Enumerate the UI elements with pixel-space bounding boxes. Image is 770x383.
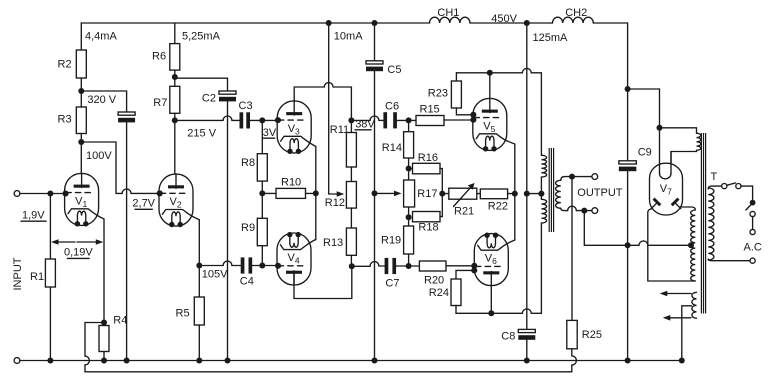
resistor R6 bbox=[174, 23, 176, 44]
resistor R7 bbox=[170, 86, 180, 113]
node 100V bbox=[78, 139, 84, 145]
measure arrow 0,19V bbox=[57, 241, 75, 243]
resistor R20 bbox=[419, 261, 446, 271]
V4 plate wire to R13/C7 node bbox=[294, 266, 352, 298]
svg-text:R8: R8 bbox=[241, 157, 255, 169]
resistor R3 bbox=[76, 107, 86, 134]
svg-text:C4: C4 bbox=[240, 275, 254, 287]
resistor R8 bbox=[261, 120, 263, 153]
feedback resistor R25 bbox=[571, 177, 573, 321]
wire 38V node to C6 with hop over C5 line bbox=[351, 119, 370, 121]
svg-text:CH1: CH1 bbox=[437, 7, 459, 19]
resistor R18 bbox=[413, 212, 441, 222]
top B+ rail bbox=[81, 22, 429, 24]
svg-text:C5: C5 bbox=[387, 64, 401, 76]
heater winding with arrows bbox=[692, 292, 697, 318]
balance feed line from B+ rail to R12 bbox=[326, 20, 332, 26]
wire R16/R18 right link bbox=[440, 169, 442, 217]
triode V1 bbox=[65, 173, 104, 226]
pentode V5 bbox=[473, 98, 515, 151]
secondary bottom lead to terminal bbox=[561, 208, 568, 210]
choke CH2 bbox=[553, 17, 594, 23]
node R8/R9/R10 bbox=[259, 190, 265, 196]
svg-text:R2: R2 bbox=[58, 59, 72, 71]
svg-text:1,9V: 1,9V bbox=[22, 210, 45, 222]
svg-text:C2: C2 bbox=[202, 92, 216, 104]
potentiometer R21 bbox=[442, 193, 449, 195]
wire C3 to V3 grid bbox=[250, 119, 278, 121]
svg-text:R19: R19 bbox=[381, 235, 401, 247]
svg-text:R24: R24 bbox=[429, 287, 449, 299]
svg-text:10mA: 10mA bbox=[334, 31, 363, 43]
svg-text:R5: R5 bbox=[176, 308, 190, 320]
V6 plate wire to output transformer with hop over C8 line bbox=[490, 285, 492, 313]
svg-text:105V: 105V bbox=[202, 269, 228, 281]
wire input to V1 grid bbox=[20, 193, 65, 195]
HV secondary winding bbox=[691, 210, 696, 281]
heater center tap to ground bbox=[682, 306, 692, 361]
capacitor C6 bbox=[383, 112, 387, 128]
V7 right anode bbox=[675, 203, 680, 208]
svg-text:R6: R6 bbox=[152, 51, 166, 63]
triode V2 bbox=[159, 174, 199, 227]
svg-text:R20: R20 bbox=[424, 275, 444, 287]
resistor R16 bbox=[409, 168, 413, 170]
5V filament winding of T bbox=[660, 128, 697, 134]
capacitor C1 bbox=[81, 91, 126, 112]
svg-text:OUTPUT: OUTPUT bbox=[577, 187, 623, 199]
V3 cathode wire down bbox=[315, 147, 317, 194]
svg-text:125mA: 125mA bbox=[533, 32, 569, 44]
svg-text:R16: R16 bbox=[418, 152, 438, 164]
svg-text:215 V: 215 V bbox=[187, 128, 216, 140]
node 215V bbox=[172, 117, 178, 123]
wire C4 to V4 grid bbox=[252, 265, 277, 267]
capacitor C7 bbox=[385, 258, 389, 274]
svg-text:R1: R1 bbox=[30, 271, 44, 283]
rectifier V7 envelope bbox=[650, 163, 683, 215]
resistor R14 bbox=[408, 120, 410, 131]
node 320V bbox=[78, 88, 84, 94]
choke CH1 bbox=[430, 17, 471, 23]
HV secondary top to V7 right anode bbox=[681, 207, 696, 210]
svg-text:CH2: CH2 bbox=[565, 7, 587, 19]
V1 cathode wire to R4 bbox=[103, 219, 105, 326]
wire 215V to C3 with hop bbox=[175, 119, 223, 121]
mains transformer T core bbox=[700, 133, 702, 314]
capacitor C8 bbox=[518, 329, 535, 332]
capacitor C5 line from rail bbox=[372, 20, 378, 26]
svg-text:450V: 450V bbox=[491, 13, 517, 25]
svg-text:R14: R14 bbox=[382, 142, 402, 154]
svg-text:R10: R10 bbox=[281, 177, 301, 189]
resistor R11 bbox=[346, 133, 356, 168]
node R17/R18 bbox=[406, 214, 412, 220]
V7 left anode bbox=[651, 203, 656, 208]
resistor R23 (V5 plate-grid) bbox=[455, 73, 457, 81]
wire B+ to V7 filament bbox=[628, 89, 660, 128]
svg-text:R15: R15 bbox=[420, 103, 440, 115]
coupling wire 100V node to V2 grid with hop bbox=[81, 142, 122, 193]
svg-text:R7: R7 bbox=[153, 97, 167, 109]
resistor R22 bbox=[477, 193, 481, 195]
pentode V6 (inverted) bbox=[474, 233, 515, 286]
feedback branch to sub-rail bbox=[85, 323, 104, 357]
R25 lead hopping ground rail to sub-rail bbox=[571, 349, 573, 356]
switch to A.C input bbox=[708, 186, 721, 189]
resistor R17 bbox=[404, 180, 415, 207]
svg-text:R21: R21 bbox=[454, 206, 474, 218]
output common wire to HV center tap bbox=[584, 211, 639, 246]
V7 filament leads into tube bbox=[659, 128, 661, 174]
svg-text:R17: R17 bbox=[417, 188, 437, 200]
resistor R19 bbox=[404, 226, 414, 254]
wire 105V to C4 with hop over C2 line bbox=[199, 265, 223, 267]
resistor R4 bbox=[99, 326, 109, 352]
output transformer secondary bbox=[556, 180, 561, 208]
resistor R9 bbox=[257, 218, 267, 245]
svg-text:R11: R11 bbox=[330, 124, 349, 136]
bottom ground rail bbox=[14, 358, 20, 364]
node R6/R7 bbox=[172, 74, 178, 80]
svg-text:4,4mA: 4,4mA bbox=[85, 31, 117, 43]
wire C7 node to R19/R20 with hop over C5 line bbox=[352, 265, 370, 267]
svg-text:5,25mA: 5,25mA bbox=[182, 31, 221, 43]
resistor R2 bbox=[80, 23, 82, 50]
svg-text:R12: R12 bbox=[325, 197, 345, 209]
triode V3 bbox=[277, 101, 316, 154]
cathode link V5-V6 bbox=[514, 144, 516, 240]
resistor R15 bbox=[416, 116, 444, 126]
triode V4 (inverted) bbox=[277, 232, 316, 285]
svg-text:A.C: A.C bbox=[744, 242, 762, 254]
capacitor C4 bbox=[241, 257, 245, 273]
resistor R13 bbox=[346, 228, 356, 255]
svg-text:C3: C3 bbox=[239, 100, 253, 112]
svg-text:R22: R22 bbox=[488, 200, 508, 212]
svg-text:C7: C7 bbox=[385, 278, 399, 290]
grid connection dots redrawn above tube outlines bbox=[63, 191, 69, 197]
mains primary winding bbox=[708, 188, 714, 260]
resistor R24 (V6 plate-grid) bbox=[471, 267, 477, 273]
svg-text:100V: 100V bbox=[86, 150, 112, 162]
svg-text:C6: C6 bbox=[385, 101, 399, 113]
svg-text:320 V: 320 V bbox=[87, 94, 116, 106]
wire bbox=[593, 22, 627, 24]
secondary top lead to terminal bbox=[561, 177, 592, 181]
svg-text:C8: C8 bbox=[501, 331, 515, 343]
svg-text:R25: R25 bbox=[582, 329, 602, 341]
svg-text:R4: R4 bbox=[113, 315, 127, 327]
svg-text:R9: R9 bbox=[241, 222, 255, 234]
svg-text:3V: 3V bbox=[263, 127, 277, 139]
svg-text:R23: R23 bbox=[428, 88, 448, 100]
output transformer primary bbox=[541, 155, 546, 177]
svg-text:0,19V: 0,19V bbox=[64, 247, 93, 259]
wire bbox=[470, 22, 553, 24]
output transformer core bbox=[548, 148, 550, 232]
arrow into R17 (hum balance) bbox=[375, 192, 396, 194]
resistor R12 bbox=[346, 182, 356, 209]
V5 plate wire to output transformer with hop bbox=[489, 73, 491, 99]
resistor R1 bbox=[49, 194, 51, 260]
resistor R10 bbox=[262, 192, 276, 194]
svg-text:R13: R13 bbox=[323, 237, 343, 249]
cathode link V3-V4 bbox=[315, 193, 317, 239]
feedback sub-rail wire bbox=[85, 371, 572, 373]
capacitor C3 bbox=[240, 112, 244, 128]
svg-text:C9: C9 bbox=[638, 147, 652, 159]
rectifier B+ line with C9 bbox=[627, 23, 629, 161]
svg-text:INPUT: INPUT bbox=[12, 257, 24, 290]
svg-text:R18: R18 bbox=[418, 222, 438, 234]
125mA B+ line to primary center tap and C8 bbox=[524, 20, 530, 26]
resistor R5 bbox=[194, 297, 204, 325]
HV bottom to V7 left anode bbox=[648, 209, 696, 281]
V3 plate wire to R11 column with hop bbox=[294, 87, 324, 101]
svg-text:R3: R3 bbox=[58, 114, 72, 126]
svg-text:2,7V: 2,7V bbox=[132, 198, 155, 210]
capacitor C2 bbox=[175, 78, 228, 91]
input terminal bbox=[14, 191, 20, 197]
V2 cathode wire bbox=[198, 220, 200, 297]
svg-text:T: T bbox=[711, 171, 718, 183]
